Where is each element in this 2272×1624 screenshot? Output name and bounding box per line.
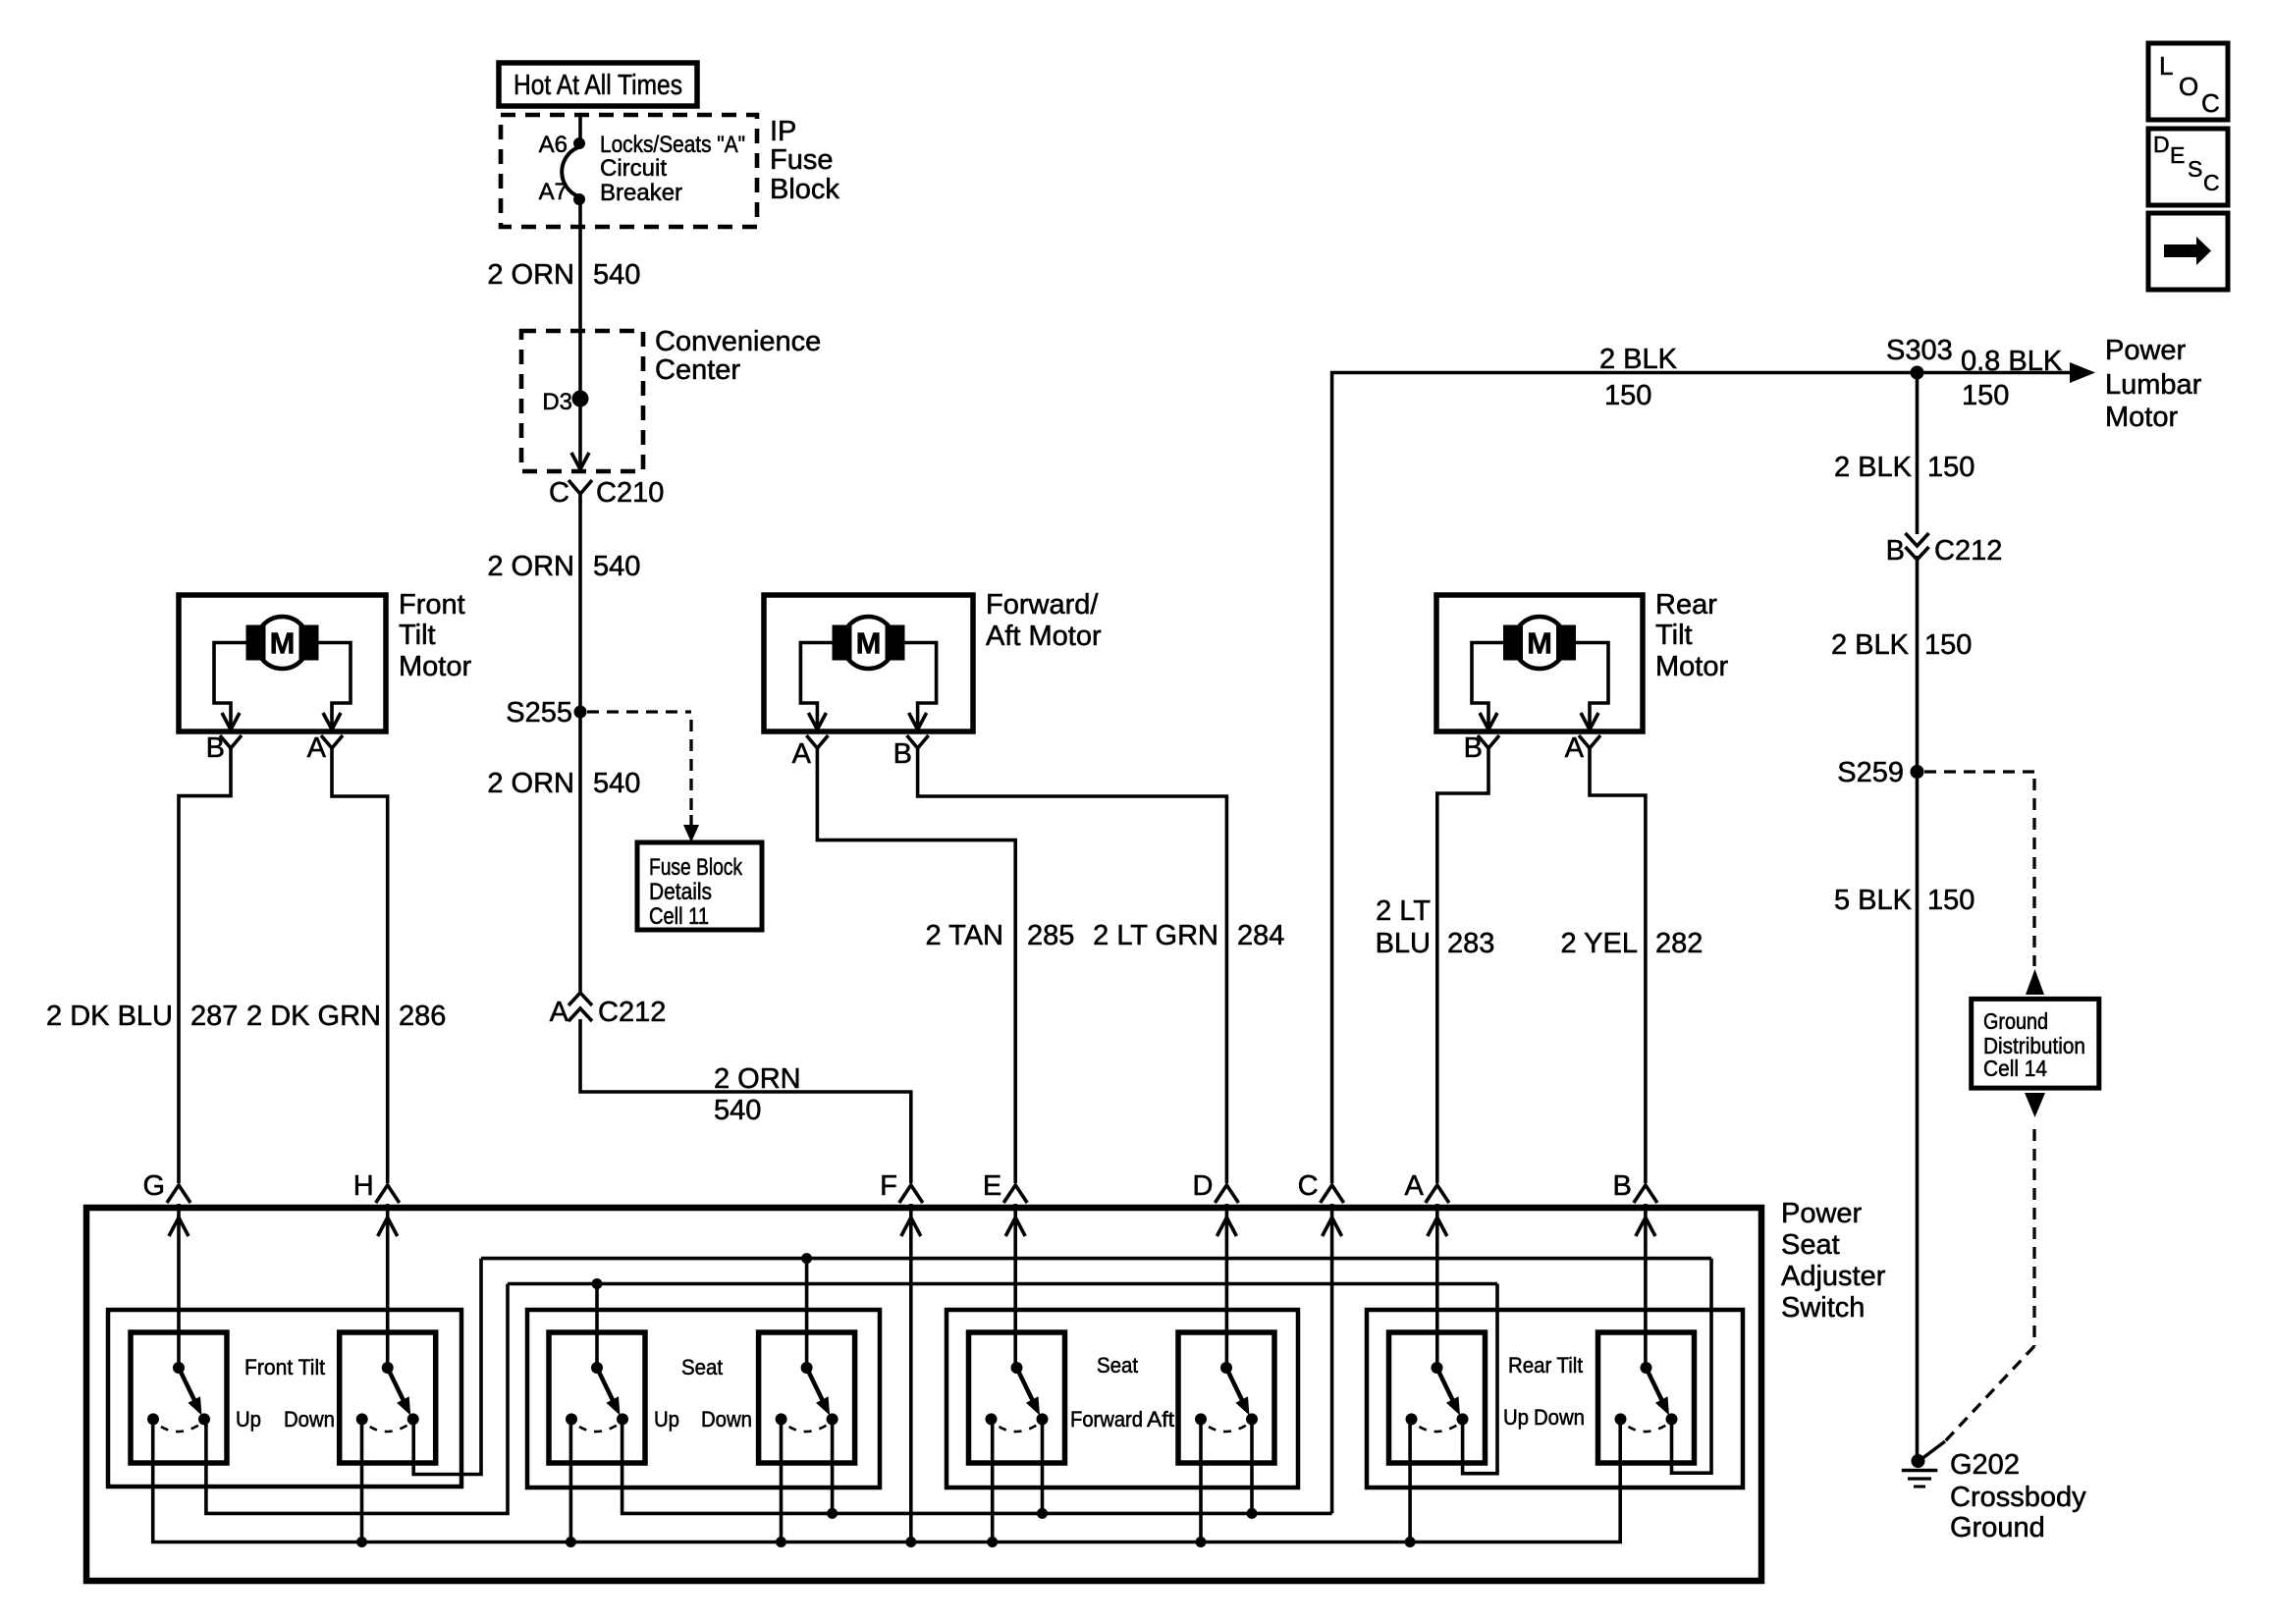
svg-text:Up: Up bbox=[236, 1407, 261, 1432]
svg-text:285: 285 bbox=[1027, 920, 1074, 951]
svg-text:A: A bbox=[1404, 1170, 1424, 1202]
wire label 2 ORN 540 bbox=[487, 551, 640, 582]
motor M1 Front Tilt Motor bbox=[179, 595, 386, 731]
svg-text:O: O bbox=[2179, 72, 2198, 101]
svg-text:150: 150 bbox=[1927, 885, 1974, 916]
svg-text:Ground: Ground bbox=[1950, 1512, 2045, 1543]
wire switch pin C up to S303 (2 BLK 150) bbox=[1332, 373, 1918, 1184]
node A7 bbox=[539, 179, 585, 205]
label Forward/Aft Motor bbox=[986, 589, 1102, 652]
wire label 2 LT BLU 283 bbox=[1376, 895, 1495, 959]
junction node on feed bus bbox=[987, 1537, 998, 1547]
wire switch left contact to feed bus bbox=[991, 1419, 995, 1542]
wire pin D to SW6 pivot bbox=[1225, 1204, 1229, 1368]
wire S303 down to C212-B (2 BLK 150) bbox=[1916, 373, 1920, 535]
svg-text:Lumbar: Lumbar bbox=[2105, 369, 2202, 401]
svg-text:M: M bbox=[270, 626, 296, 661]
svg-text:Locks/Seats "A": Locks/Seats "A" bbox=[600, 132, 745, 158]
ground G202 symbol bbox=[1902, 1454, 1938, 1487]
label Seat bbox=[681, 1355, 723, 1380]
wire pin H to SW2 pivot bbox=[386, 1204, 390, 1368]
junction node on feed bus bbox=[356, 1537, 367, 1547]
switch pole SW2 bbox=[340, 1332, 436, 1463]
label Aft bbox=[1147, 1407, 1174, 1432]
wire C212-A to switch pin F (2 ORN 540) bbox=[580, 1019, 911, 1183]
reference box: Fuse Block Details Cell 11 bbox=[637, 842, 762, 930]
Convenience Center dashed box bbox=[521, 331, 643, 471]
wire C212-B to S259 (2 BLK 150) bbox=[1916, 556, 1920, 772]
wire label 2 DK BLU 287 bbox=[46, 1001, 238, 1032]
svg-text:C: C bbox=[1298, 1170, 1319, 1202]
svg-text:Breaker: Breaker bbox=[600, 180, 682, 206]
switch group box Front Tilt bbox=[108, 1310, 461, 1487]
svg-text:E: E bbox=[983, 1170, 1001, 1202]
svg-text:2 TAN: 2 TAN bbox=[925, 920, 1003, 951]
svg-text:2 ORN: 2 ORN bbox=[487, 259, 574, 291]
svg-text:2 BLK: 2 BLK bbox=[1831, 629, 1910, 661]
label Front Tilt Motor bbox=[399, 589, 471, 682]
svg-text:Circuit: Circuit bbox=[600, 155, 667, 182]
junction node bbox=[1037, 1508, 1048, 1519]
svg-text:B: B bbox=[1886, 535, 1905, 567]
switch pole SW8 bbox=[1598, 1332, 1695, 1463]
Power Seat Adjuster Switch outer box bbox=[86, 1208, 1761, 1581]
switch pole SW4 bbox=[759, 1332, 855, 1463]
svg-text:Seat: Seat bbox=[681, 1355, 723, 1380]
label Power Lumbar Motor bbox=[2105, 335, 2202, 433]
wire M3-B to switch pin A (2 LT BLU 283) bbox=[1437, 761, 1488, 1183]
switch pole SW6 bbox=[1178, 1332, 1274, 1463]
svg-text:150: 150 bbox=[1927, 452, 1974, 483]
node S259 bbox=[1837, 757, 1923, 788]
wire SW4 pivot to bus 1 bbox=[805, 1259, 809, 1368]
wire pin B to SW8 pivot bbox=[1644, 1204, 1648, 1368]
legend box DESC bbox=[2148, 129, 2228, 205]
svg-text:Switch: Switch bbox=[1781, 1292, 1865, 1324]
svg-text:2 ORN: 2 ORN bbox=[714, 1063, 801, 1095]
svg-text:C210: C210 bbox=[596, 477, 664, 509]
node D3 bbox=[542, 389, 588, 415]
svg-text:2 YEL: 2 YEL bbox=[1561, 928, 1638, 959]
label Down bbox=[701, 1407, 752, 1432]
dashed reference wire to G202 bbox=[1921, 1129, 2034, 1459]
wire label 2 LT GRN 284 bbox=[1093, 920, 1284, 951]
dashed reference wire S255 to Fuse Block Details bbox=[587, 712, 699, 842]
label Rear Tilt bbox=[1508, 1353, 1583, 1378]
wire M2-A to switch pin E (2 TAN 285) bbox=[817, 761, 1015, 1183]
svg-text:Down: Down bbox=[1534, 1405, 1585, 1430]
reference arrow up bbox=[2026, 969, 2044, 995]
wire D3 to connector C210 with arrowhead bbox=[571, 399, 589, 469]
svg-text:Details: Details bbox=[649, 879, 712, 905]
label Up bbox=[236, 1407, 261, 1432]
svg-text:A7: A7 bbox=[539, 179, 568, 205]
circuit breaker CB (Locks/Seats A) bbox=[562, 147, 578, 196]
wire A7 to Convenience Center (2 ORN 540) bbox=[578, 199, 582, 331]
svg-text:286: 286 bbox=[399, 1001, 446, 1032]
svg-text:2 DK GRN: 2 DK GRN bbox=[246, 1001, 381, 1032]
svg-text:C: C bbox=[549, 477, 569, 509]
junction node on feed bus bbox=[1196, 1537, 1207, 1547]
connector C212 pin B bbox=[1886, 533, 2003, 567]
junction node on feed bus bbox=[1405, 1537, 1416, 1547]
wire from fuse block top to terminal A6 bbox=[578, 115, 582, 143]
svg-text:Front Tilt: Front Tilt bbox=[244, 1355, 325, 1380]
wire SW4 right contact to ground bus bbox=[831, 1419, 835, 1513]
svg-text:Down: Down bbox=[701, 1407, 752, 1432]
wire pin A to SW7 pivot bbox=[1435, 1204, 1439, 1368]
reference box: Ground Distribution Cell 14 bbox=[1972, 999, 2099, 1088]
svg-text:Cell 14: Cell 14 bbox=[1983, 1056, 2047, 1081]
svg-text:540: 540 bbox=[593, 768, 640, 799]
label Down bbox=[1534, 1405, 1585, 1430]
wire S255 to connector C212 (2 ORN 540) bbox=[578, 712, 582, 994]
wire SW7 right contact to bus 2 bbox=[1463, 1284, 1497, 1474]
switch pin H connector bbox=[353, 1170, 400, 1236]
svg-text:2 BLK: 2 BLK bbox=[1834, 452, 1913, 483]
svg-text:2 LT: 2 LT bbox=[1376, 895, 1431, 927]
wire M3-A to switch pin B (2 YEL 282) bbox=[1590, 761, 1646, 1183]
motor M3 pin B connector bbox=[1464, 732, 1499, 764]
wire label 2 BLK 150 bbox=[1834, 452, 1974, 483]
wire label 2 DK GRN 286 bbox=[246, 1001, 446, 1032]
junction node bbox=[1247, 1508, 1258, 1519]
svg-text:5 BLK: 5 BLK bbox=[1834, 885, 1913, 916]
svg-text:Fuse: Fuse bbox=[770, 144, 833, 176]
svg-text:282: 282 bbox=[1655, 928, 1703, 959]
svg-text:Down: Down bbox=[284, 1407, 335, 1432]
svg-text:Motor: Motor bbox=[399, 651, 471, 682]
internal bus 2 (SW3 pivot rail) bbox=[508, 1282, 1497, 1286]
svg-text:2 BLK: 2 BLK bbox=[1599, 344, 1678, 375]
wire switch left contact to feed bus bbox=[1199, 1419, 1203, 1542]
internal bus 1 (SW4 pivot rail) bbox=[481, 1257, 1711, 1261]
switch pin E connector bbox=[983, 1170, 1027, 1236]
wire label 0.8 BLK 150 bbox=[1961, 346, 2063, 411]
svg-text:BLU: BLU bbox=[1376, 928, 1431, 959]
svg-text:IP: IP bbox=[770, 116, 796, 147]
label Convenience Center bbox=[655, 326, 821, 386]
wire switch left contact to feed bus bbox=[1408, 1419, 1412, 1542]
svg-text:Seat: Seat bbox=[1097, 1353, 1138, 1378]
svg-text:M: M bbox=[1527, 626, 1552, 661]
switch pole SW1 bbox=[131, 1332, 227, 1463]
svg-text:2 ORN: 2 ORN bbox=[487, 551, 574, 582]
svg-text:Hot At All Times: Hot At All Times bbox=[514, 70, 682, 101]
svg-text:A: A bbox=[1565, 732, 1585, 764]
svg-text:Block: Block bbox=[770, 174, 839, 205]
svg-text:A: A bbox=[307, 732, 327, 764]
wire SW2 right contact to bus 1 bbox=[413, 1259, 481, 1475]
svg-text:S255: S255 bbox=[506, 697, 572, 729]
switch pin D connector bbox=[1192, 1170, 1238, 1236]
svg-text:2 DK BLU: 2 DK BLU bbox=[46, 1001, 173, 1032]
wire SW8 right contact to bus 1 bbox=[1672, 1259, 1712, 1474]
svg-text:540: 540 bbox=[714, 1095, 761, 1126]
feed bus (ORN from pin F) bbox=[153, 1419, 1621, 1542]
label IP Fuse Block bbox=[770, 116, 839, 205]
wire label 2 BLK 150 bbox=[1831, 629, 1972, 661]
svg-text:G202: G202 bbox=[1950, 1449, 2020, 1481]
ground bus (to pin C) bbox=[622, 1419, 1332, 1513]
wire label 2 BLK 150 bbox=[1599, 344, 1678, 411]
label Rear Tilt Motor bbox=[1655, 589, 1728, 682]
label Power Seat Adjuster Switch bbox=[1781, 1198, 1886, 1324]
svg-text:Ground: Ground bbox=[1983, 1008, 2048, 1034]
label Front Tilt bbox=[244, 1355, 325, 1380]
svg-text:A: A bbox=[792, 738, 812, 770]
svg-text:D: D bbox=[2153, 132, 2170, 157]
svg-text:B: B bbox=[206, 732, 225, 764]
wire SW1 right contact to bus 2 bbox=[206, 1284, 508, 1514]
svg-text:283: 283 bbox=[1447, 928, 1494, 959]
switch group box Rear Tilt bbox=[1367, 1310, 1743, 1488]
svg-text:A: A bbox=[550, 997, 569, 1028]
wire pin F to feed bus bbox=[909, 1204, 913, 1543]
svg-text:C212: C212 bbox=[598, 997, 666, 1028]
node S303 bbox=[1886, 335, 1953, 380]
motor M2 pin A connector bbox=[792, 735, 829, 770]
svg-text:Rear: Rear bbox=[1655, 589, 1717, 621]
switch pin A connector bbox=[1404, 1170, 1448, 1236]
svg-text:287: 287 bbox=[190, 1001, 238, 1032]
svg-text:A6: A6 bbox=[539, 132, 568, 158]
svg-text:C: C bbox=[2203, 170, 2220, 195]
junction node on feed bus bbox=[776, 1537, 786, 1547]
wire SW6 right contact to ground bus bbox=[1250, 1419, 1254, 1513]
reference arrow down bbox=[2025, 1093, 2045, 1117]
node A6 bbox=[539, 132, 585, 158]
svg-text:E: E bbox=[2170, 142, 2185, 168]
switch pin G connector bbox=[142, 1170, 190, 1236]
svg-text:S259: S259 bbox=[1837, 757, 1904, 788]
svg-text:Up: Up bbox=[654, 1407, 679, 1432]
wire into convenience center bbox=[578, 331, 582, 393]
wire switch left contact to feed bus bbox=[569, 1419, 573, 1542]
svg-text:D: D bbox=[1192, 1170, 1213, 1202]
label Down bbox=[284, 1407, 335, 1432]
wire pin C to ground bus bbox=[1330, 1204, 1334, 1513]
svg-text:150: 150 bbox=[1924, 629, 1972, 661]
wire label 5 BLK 150 bbox=[1834, 885, 1974, 916]
wire switch left contact to feed bus bbox=[780, 1419, 784, 1542]
legend box arrow bbox=[2148, 213, 2228, 290]
switch pin B connector bbox=[1613, 1170, 1657, 1236]
wire pin G to SW1 pivot bbox=[177, 1204, 181, 1368]
svg-text:Crossbody: Crossbody bbox=[1950, 1482, 2086, 1513]
svg-text:Motor: Motor bbox=[2105, 402, 2178, 433]
node S255 bbox=[506, 697, 586, 729]
svg-text:D3: D3 bbox=[542, 389, 572, 415]
svg-text:Aft Motor: Aft Motor bbox=[986, 621, 1102, 652]
IP Fuse Block dashed box bbox=[501, 115, 757, 227]
connector C210 pin C bbox=[549, 477, 664, 509]
motor M3 pin A connector bbox=[1565, 732, 1600, 764]
switch pole SW7 bbox=[1389, 1332, 1486, 1463]
svg-text:Fuse Block: Fuse Block bbox=[649, 854, 743, 881]
svg-text:B: B bbox=[1613, 1170, 1632, 1202]
svg-text:Aft: Aft bbox=[1147, 1407, 1174, 1432]
switch pin C connector bbox=[1298, 1170, 1344, 1236]
svg-text:Tilt: Tilt bbox=[399, 620, 436, 651]
svg-text:M: M bbox=[856, 626, 882, 661]
wire pin E to SW5 pivot bbox=[1013, 1204, 1017, 1368]
switch pole SW3 bbox=[549, 1332, 645, 1463]
svg-text:S303: S303 bbox=[1886, 335, 1953, 366]
svg-text:B: B bbox=[1464, 732, 1483, 764]
svg-text:G: G bbox=[142, 1170, 165, 1202]
svg-text:Motor: Motor bbox=[1655, 651, 1728, 682]
junction node on bus 1 bbox=[801, 1253, 812, 1264]
label Seat bbox=[1097, 1353, 1138, 1378]
switch group box Seat Up/Down bbox=[527, 1310, 880, 1488]
svg-text:284: 284 bbox=[1237, 920, 1284, 951]
svg-text:Up: Up bbox=[1503, 1405, 1529, 1430]
label Forward bbox=[1070, 1407, 1143, 1432]
wire C210 to S255 (2 ORN 540) bbox=[578, 501, 582, 712]
svg-text:B: B bbox=[893, 738, 912, 770]
svg-text:Forward: Forward bbox=[1070, 1407, 1143, 1432]
connector C212 pin A bbox=[550, 993, 667, 1028]
junction node bbox=[827, 1508, 838, 1519]
label Locks/Seats A Circuit Breaker bbox=[600, 132, 745, 206]
wire M2-B to switch pin D (2 LT GRN 284) bbox=[918, 761, 1227, 1183]
wire label 2 YEL 282 bbox=[1561, 928, 1704, 959]
svg-text:150: 150 bbox=[1604, 380, 1651, 411]
wire label 2 ORN 540 bbox=[487, 768, 640, 799]
switch pole SW5 bbox=[969, 1332, 1065, 1463]
wire switch left contact to feed bus bbox=[360, 1419, 364, 1542]
svg-text:Tilt: Tilt bbox=[1655, 620, 1693, 651]
svg-text:L: L bbox=[2159, 51, 2173, 81]
junction node pin F on feed bus bbox=[905, 1537, 916, 1547]
motor M2 pin B connector bbox=[893, 735, 929, 770]
motor M1 pin A connector bbox=[307, 732, 343, 764]
wire S259 to G202 ground (5 BLK 150) bbox=[1916, 772, 1920, 1461]
switch pin F connector bbox=[880, 1170, 923, 1236]
svg-text:Seat: Seat bbox=[1781, 1229, 1840, 1261]
svg-text:0.8 BLK: 0.8 BLK bbox=[1961, 346, 2063, 377]
label Up bbox=[1503, 1405, 1529, 1430]
wire S303 to Power Lumbar Motor with arrowhead (0.8 BLK 150) bbox=[1918, 362, 2096, 383]
svg-text:540: 540 bbox=[593, 259, 640, 291]
wire label 2 ORN 540 bbox=[714, 1063, 801, 1126]
svg-text:Cell 11: Cell 11 bbox=[649, 903, 709, 930]
label G202 Crossbody Ground bbox=[1950, 1449, 2086, 1543]
wire label 2 TAN 285 bbox=[925, 920, 1074, 951]
svg-text:S: S bbox=[2188, 156, 2202, 182]
svg-text:F: F bbox=[880, 1170, 897, 1202]
motor M3 Rear Tilt Motor bbox=[1436, 595, 1643, 731]
wire label 2 ORN 540 bbox=[487, 259, 640, 291]
label Up bbox=[654, 1407, 679, 1432]
wire SW3 pivot to bus 2 bbox=[595, 1284, 599, 1369]
svg-text:H: H bbox=[353, 1170, 374, 1202]
svg-text:Rear Tilt: Rear Tilt bbox=[1508, 1353, 1583, 1378]
svg-text:Forward/: Forward/ bbox=[986, 589, 1099, 621]
power label box: Hot At All Times bbox=[499, 63, 697, 106]
motor M2 Forward/Aft Motor bbox=[764, 595, 973, 731]
svg-text:Convenience: Convenience bbox=[655, 326, 821, 357]
wire M1-B to switch pin G (2 DK BLU 287) bbox=[179, 761, 231, 1183]
legend box LOC bbox=[2148, 43, 2228, 120]
junction node on bus 2 bbox=[592, 1278, 603, 1289]
svg-text:C212: C212 bbox=[1934, 535, 2002, 567]
svg-text:2 ORN: 2 ORN bbox=[487, 768, 574, 799]
svg-text:150: 150 bbox=[1962, 380, 2009, 411]
svg-text:Front: Front bbox=[399, 589, 465, 621]
junction node on feed bus bbox=[566, 1537, 576, 1547]
svg-text:2 LT GRN: 2 LT GRN bbox=[1093, 920, 1218, 951]
motor M1 pin B connector bbox=[206, 732, 242, 764]
wire M1-A to switch pin H (2 DK GRN 286) bbox=[332, 761, 388, 1183]
svg-text:Center: Center bbox=[655, 354, 740, 386]
svg-text:540: 540 bbox=[593, 551, 640, 582]
svg-text:Adjuster: Adjuster bbox=[1781, 1261, 1886, 1292]
svg-text:C: C bbox=[2201, 88, 2220, 118]
svg-text:Power: Power bbox=[1781, 1198, 1863, 1229]
wire SW5 right contact to ground bus bbox=[1041, 1419, 1045, 1513]
dashed reference wire S259 to Ground Distribution bbox=[1924, 772, 2034, 966]
svg-text:Power: Power bbox=[2105, 335, 2187, 366]
switch group box Seat Forward/Aft bbox=[947, 1310, 1298, 1488]
